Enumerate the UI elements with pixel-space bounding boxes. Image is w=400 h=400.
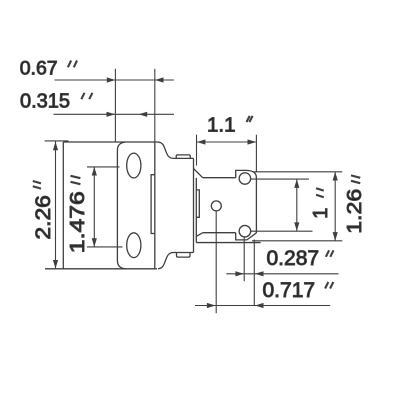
svg-text:1: 1 [310,208,332,219]
svg-text:0.717: 0.717 [263,279,316,302]
svg-text:0.67: 0.67 [20,58,58,80]
svg-text:2.26: 2.26 [32,195,55,240]
svg-text:1.476: 1.476 [67,191,89,253]
svg-text:1.26: 1.26 [343,189,366,234]
svg-text:1.1: 1.1 [207,114,236,137]
svg-text:0.287: 0.287 [267,247,320,270]
svg-text:0.315: 0.315 [20,90,70,112]
